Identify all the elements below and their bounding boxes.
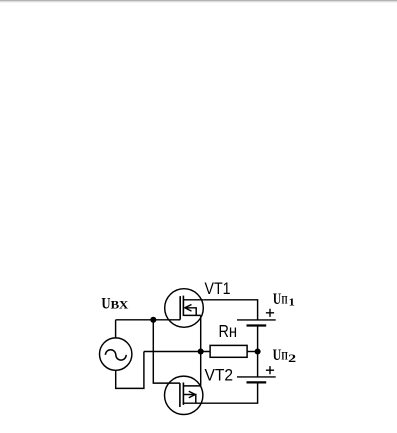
wire source top lead bbox=[115, 320, 117, 338]
transistor VT1 bbox=[165, 289, 204, 328]
battery GB2 (Uп2) long plate bbox=[237, 376, 276, 378]
wire VT1 drain bbox=[203, 300, 257, 320]
svg-text:VT1: VT1 bbox=[205, 280, 231, 298]
svg-text:U: U bbox=[101, 295, 110, 313]
wire battery rail (GB1 to node M2 to GB2) bbox=[257, 326, 259, 377]
svg-text:VT2: VT2 bbox=[205, 366, 234, 384]
node input junction bbox=[150, 317, 156, 323]
battery GB2 (Uп2) short plate bbox=[247, 381, 267, 383]
AC source G1 (Uвх generator) bbox=[100, 338, 132, 370]
svg-text:н: н bbox=[229, 321, 237, 341]
node M2 (rail right of resistor) bbox=[255, 348, 261, 354]
wire middle rail right bbox=[248, 351, 258, 353]
wire VT1 source / VT2 drain bbox=[200, 315, 202, 386]
svg-text:П: П bbox=[282, 292, 289, 306]
wire VT2 gate bbox=[153, 320, 180, 383]
transistor VT2 bbox=[165, 376, 203, 414]
wire bottom rail (VT2 source to GB2) bbox=[183, 382, 257, 403]
node M1 (rail left of resistor) bbox=[198, 348, 204, 354]
battery GB1 (Uп1) long plate bbox=[237, 319, 276, 321]
resistor Rн bbox=[210, 345, 247, 357]
svg-text:U: U bbox=[273, 291, 281, 308]
svg-text:2: 2 bbox=[288, 353, 296, 365]
svg-text:R: R bbox=[219, 321, 229, 341]
plus sign GB2 bbox=[266, 366, 274, 374]
wire source bottom loop bbox=[116, 352, 144, 389]
plus sign GB1 bbox=[266, 309, 274, 317]
battery GB1 (Uп1) short plate bbox=[247, 324, 267, 326]
svg-text:1: 1 bbox=[289, 297, 295, 309]
svg-text:U: U bbox=[273, 347, 282, 364]
wire input (top horizontal from source corner to VT1 gate) bbox=[116, 319, 181, 321]
svg-text:ВХ: ВХ bbox=[111, 298, 129, 312]
wire middle rail left bbox=[144, 351, 210, 353]
